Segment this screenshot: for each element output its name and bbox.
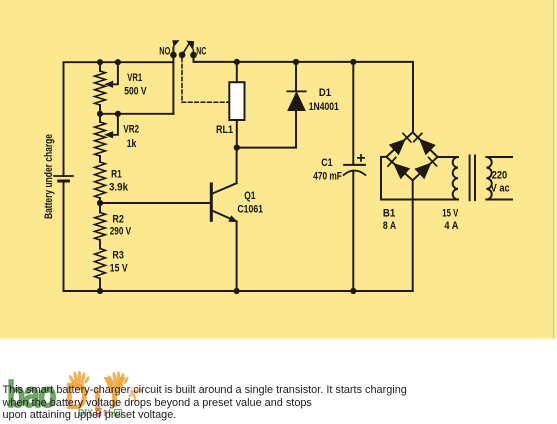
caption line 1 bbox=[3, 384, 407, 396]
potentiometer VR1 bbox=[95, 71, 106, 105]
watermark logo D bbox=[65, 382, 88, 412]
svg-text:220: 220 bbox=[492, 170, 507, 182]
relay contact NC arrow flag bbox=[186, 41, 194, 51]
wire C1 to bottom rail bbox=[352, 171, 354, 291]
node top rail RL1 bbox=[234, 59, 240, 65]
svg-text:4 A: 4 A bbox=[444, 220, 458, 232]
node R1-R2 base tap bbox=[97, 200, 103, 206]
svg-text:R2: R2 bbox=[112, 213, 123, 225]
watermark trailing stroke bbox=[129, 390, 143, 402]
svg-text:D1: D1 bbox=[319, 87, 332, 99]
transformer core bbox=[470, 156, 475, 201]
C1 plus sign bbox=[358, 155, 364, 161]
wire Q1 emitter down to bottom rail bbox=[236, 222, 238, 292]
wire battery negative down to bottom rail bbox=[64, 181, 413, 291]
transformer secondary winding bbox=[453, 157, 458, 200]
diode D1 bbox=[287, 90, 305, 92]
wire collector node to D1 anode bbox=[237, 111, 296, 148]
yellow background panel bbox=[0, 0, 557, 338]
wire D1 cathode to top rail bbox=[295, 62, 297, 91]
VR1 wiper arrow bbox=[112, 62, 118, 84]
capacitor C1 plates bbox=[344, 164, 365, 166]
wire top rail right (NC to bridge top) bbox=[194, 55, 414, 132]
wire primary top lead bbox=[486, 156, 512, 158]
node top rail D1 bbox=[293, 59, 299, 65]
node VR1 wiper top bbox=[115, 59, 121, 65]
bridge diode upper-right bbox=[420, 139, 435, 154]
potentiometer VR2 bbox=[95, 122, 106, 156]
wire Q1 collector up to node bbox=[236, 148, 238, 184]
svg-text:1N4001: 1N4001 bbox=[309, 101, 339, 113]
wire RL1 to collector node bbox=[236, 120, 238, 148]
svg-text:15 V: 15 V bbox=[110, 262, 128, 274]
VR2 wiper arrow bbox=[112, 114, 118, 135]
contact dot NO bbox=[170, 52, 177, 59]
transformer primary winding bbox=[486, 157, 491, 200]
svg-text:500 V: 500 V bbox=[124, 86, 147, 98]
contact dot NC bbox=[190, 52, 197, 59]
caption line 3 bbox=[3, 409, 177, 421]
bridge rectifier B1 diamond bbox=[386, 132, 437, 180]
svg-text:3.9k: 3.9k bbox=[109, 182, 129, 194]
wire top rail to RL1 bbox=[236, 62, 238, 82]
wire bridge left AC loop to secondary bottom bbox=[381, 157, 458, 200]
relay contact NO arrow flag bbox=[172, 40, 179, 47]
watermark hand 2 bbox=[107, 371, 129, 390]
watermark logo I bbox=[93, 386, 102, 413]
svg-text:VR2: VR2 bbox=[123, 124, 139, 136]
resistor R2 bbox=[95, 213, 106, 241]
svg-text:RL1: RL1 bbox=[216, 124, 234, 136]
node top rail C1 bbox=[350, 59, 356, 65]
node bottom rail C1 bbox=[350, 288, 356, 294]
svg-text:VR1: VR1 bbox=[127, 72, 142, 84]
node VR1 top bbox=[97, 59, 103, 65]
relay contact NC stub bbox=[192, 50, 194, 55]
resistor chain wire bbox=[99, 62, 101, 291]
svg-text:B1: B1 bbox=[383, 207, 396, 219]
transistor Q1 body bbox=[210, 184, 213, 220]
svg-text:NC: NC bbox=[196, 46, 206, 58]
contact dot common bbox=[179, 52, 186, 59]
caption line 2 bbox=[3, 397, 312, 409]
wire NO contact down to wiper bus bbox=[172, 48, 174, 114]
battery B (plates) bbox=[54, 175, 73, 177]
svg-text:R3: R3 bbox=[112, 249, 123, 261]
svg-text:470 mF: 470 mF bbox=[313, 170, 342, 182]
svg-text:15 V: 15 V bbox=[442, 207, 458, 219]
svg-text:V ac: V ac bbox=[491, 183, 510, 195]
bridge diode lower-left bbox=[394, 164, 409, 179]
bridge diode upper-left bbox=[390, 140, 405, 155]
watermark logo bao bbox=[7, 374, 55, 416]
node collector junction bbox=[234, 145, 240, 151]
node VR2 wiper bbox=[115, 111, 121, 117]
svg-text:1k: 1k bbox=[127, 138, 137, 150]
svg-text:R1: R1 bbox=[111, 169, 122, 181]
svg-text:C1: C1 bbox=[321, 157, 333, 169]
svg-text:C1061: C1061 bbox=[237, 203, 263, 215]
svg-text:Q1: Q1 bbox=[244, 190, 256, 202]
watermark hand 1 bbox=[68, 371, 90, 390]
relay contact lever bbox=[182, 43, 189, 55]
svg-text:8 A: 8 A bbox=[383, 220, 396, 232]
wire bridge right AC to secondary top bbox=[438, 156, 459, 158]
svg-text:NO: NO bbox=[159, 45, 170, 57]
watermark logo Y bbox=[103, 373, 126, 413]
wire primary bottom lead bbox=[486, 199, 512, 201]
node bottom rail left bbox=[97, 288, 103, 294]
svg-text:Battery under charge: Battery under charge bbox=[43, 134, 55, 219]
wire wiper bus to VR junction bbox=[100, 113, 173, 115]
wire base of Q1 bbox=[100, 202, 210, 204]
Q1 emitter arrow bbox=[229, 216, 237, 221]
node bottom rail emitter bbox=[234, 288, 240, 294]
node VR junction bbox=[97, 111, 103, 117]
wire top rail to C1 bbox=[352, 62, 354, 165]
resistor R3 bbox=[95, 249, 106, 279]
wire bridge bottom to bottom rail bbox=[412, 180, 414, 291]
wire battery positive to top rail left bbox=[64, 62, 174, 176]
resistor R1 bbox=[95, 162, 106, 198]
relay coil RL1 bbox=[229, 82, 244, 120]
watermark subtitle DIY baike bbox=[78, 408, 122, 419]
relay mechanical dashed link bbox=[182, 58, 229, 102]
bridge diode lower-right bbox=[415, 164, 430, 179]
svg-text:290 V: 290 V bbox=[110, 226, 131, 238]
